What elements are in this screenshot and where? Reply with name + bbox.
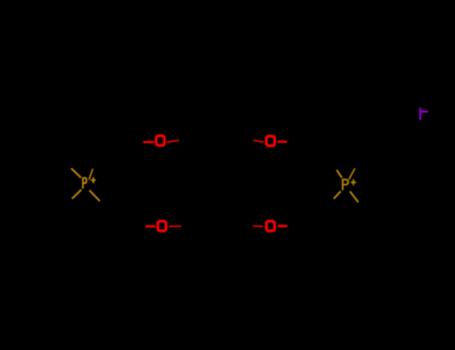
wire P1 upper-right bond stub [89,169,93,180]
wire P1 upper-left bond stub [71,168,81,177]
wire O3 methyl bond stub [145,225,155,227]
wire O1 ring bond stub [167,140,180,142]
wire O3 ring bond stub [169,225,181,227]
iodide counterion I- label [420,108,428,121]
wire P2 lower-left bond stub [334,191,341,199]
phosphonium P2 label [343,179,356,190]
wire O4 ring bond stub [253,225,263,227]
wire O2 ring bond stub [253,140,264,142]
wire P1 lower-right bond stub [89,190,100,201]
wire P1 lower-left bond stub [72,190,81,199]
oxygen O3 label (bottom-left methoxy) [158,221,166,231]
oxygen O2 label (top-right methoxy) [266,136,274,146]
wire P2 upper-left bond stub [337,170,342,178]
wire O1 methyl bond stub [143,141,154,143]
wire P2 upper-right bond stub [349,168,355,179]
oxygen O1 label (top-left methoxy) [156,136,164,146]
wire O2 methyl bond stub [277,141,287,143]
wire O4 methyl bond stub [278,225,288,227]
phosphonium P1 label [83,177,96,188]
wire P2 lower-right bond stub [350,191,358,202]
oxygen O4 label (bottom-right methoxy) [266,221,274,231]
